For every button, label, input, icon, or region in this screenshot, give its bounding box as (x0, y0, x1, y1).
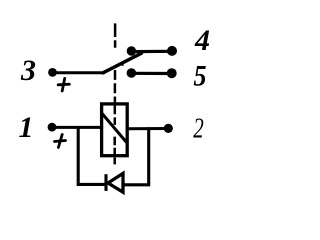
relay coil K1 (102, 104, 128, 156)
wire terminal 3 (53, 71, 105, 74)
wire contact 5 (131, 72, 171, 75)
svg-text:3: 3 (20, 54, 36, 87)
contact dot 4 right (167, 46, 177, 56)
terminal dot 2 (164, 124, 173, 133)
contact dot 5 left (127, 68, 137, 78)
wire diode branch right (123, 129, 148, 185)
svg-text:4: 4 (194, 24, 210, 57)
coil diagonal (103, 114, 127, 142)
contact dot 4 left (127, 46, 136, 55)
ink speck near contact 5 left dot (122, 64, 124, 66)
switch arm SW1 (103, 53, 142, 73)
mechanical link dashed line (113, 23, 116, 164)
plus sign near terminal 1 (55, 135, 66, 148)
diode D1 cathode bar (104, 174, 107, 191)
terminal dot 1 (48, 123, 57, 132)
svg-text:5: 5 (194, 59, 207, 92)
wire diode branch left (78, 127, 105, 184)
diode D1 triangle (108, 173, 123, 192)
svg-text:2: 2 (193, 112, 204, 144)
wire contact 4 (131, 50, 172, 53)
svg-text:1: 1 (19, 111, 34, 144)
wire terminal 1 to coil (52, 126, 102, 129)
wire coil to terminal 2 (127, 127, 168, 130)
plus sign near terminal 3 (58, 78, 69, 91)
terminal dot 3 (48, 68, 57, 77)
contact dot 5 right (167, 68, 177, 78)
